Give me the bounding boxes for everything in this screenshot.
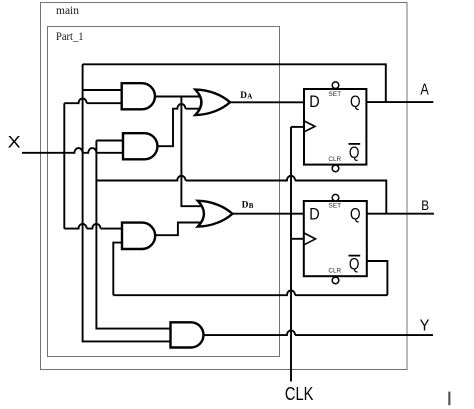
svg-text:D: D	[240, 90, 247, 100]
node main (outer box)	[41, 3, 408, 370]
wire AND3 bottom input	[113, 243, 122, 296]
wire X vertical bus	[63, 103, 65, 228]
wire DB (OR2 to FF2 D)	[232, 213, 304, 215]
svg-text:main: main	[56, 5, 79, 17]
pin CLR circle FF1	[332, 165, 339, 172]
svg-text:B: B	[421, 197, 429, 213]
pin CLR circle FF2	[332, 277, 339, 284]
and-gate AND1	[122, 83, 155, 109]
clock triangle FF1	[304, 121, 315, 132]
wire Q2bar feedback	[367, 261, 388, 295]
clock triangle FF2	[304, 233, 316, 245]
svg-text:CLR: CLR	[328, 156, 341, 163]
pin SET circle FF2	[332, 194, 339, 201]
svg-text:A: A	[420, 82, 429, 99]
svg-text:Y: Y	[420, 318, 430, 335]
wire A vertical bus	[83, 64, 171, 341]
wire AND1 output to OR1	[155, 96, 201, 98]
wire B feedback	[96, 176, 386, 214]
svg-text:SET: SET	[328, 203, 341, 210]
wire DA (OR1 to FF1 D)	[230, 101, 304, 103]
svg-text:Q: Q	[349, 255, 360, 274]
svg-text:Q: Q	[350, 205, 361, 224]
svg-text:X: X	[8, 132, 21, 151]
and-gate AND4	[171, 322, 204, 347]
flip-flop FF1	[304, 82, 366, 172]
wire CLK to FF1 clock	[291, 126, 304, 128]
wire AND3 top input	[64, 224, 122, 229]
svg-text:CLR: CLR	[328, 267, 341, 274]
svg-text:CLK: CLK	[285, 384, 314, 404]
and-gate AND3	[122, 223, 155, 249]
cursor mark bottom right	[448, 392, 450, 406]
wire X input	[22, 148, 123, 153]
svg-text:Part_1: Part_1	[56, 31, 84, 43]
svg-text:Q: Q	[349, 143, 360, 162]
svg-text:A: A	[247, 92, 252, 100]
wire Y output	[204, 330, 434, 335]
node Part_1 (inner box)	[48, 27, 280, 357]
wire AND3 output to OR2	[155, 223, 203, 236]
or-gate OR2	[198, 201, 233, 227]
svg-text:D: D	[242, 200, 249, 210]
svg-text:B: B	[249, 202, 254, 210]
wire AND1 bottom input	[64, 99, 121, 104]
svg-text:D: D	[309, 92, 319, 111]
wire A feedback top	[83, 64, 386, 102]
svg-text:D: D	[309, 205, 319, 224]
wire AND1 output branch to OR2	[181, 97, 203, 207]
and-gate AND2	[123, 133, 157, 159]
wire AND2 output to OR1	[158, 104, 202, 146]
flip-flop FF2	[304, 194, 367, 283]
wire AND2 top input	[96, 140, 123, 142]
or-gate OR1	[195, 90, 230, 115]
wire AND1 top input	[83, 89, 122, 91]
wire B-bar horizontal	[113, 291, 387, 296]
pin SET circle FF1	[332, 82, 339, 89]
wire B vertical bus	[96, 141, 170, 329]
svg-text:Q: Q	[350, 92, 361, 111]
wire CLK to FF2 clock	[291, 238, 304, 240]
svg-text:SET: SET	[328, 91, 341, 98]
wire A output	[366, 101, 433, 103]
wire B output	[367, 213, 434, 215]
wire CLK vertical	[290, 127, 292, 382]
